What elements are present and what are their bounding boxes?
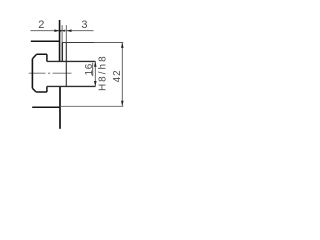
svg-text:42: 42 [112,69,123,82]
svg-text:16: 16 [84,63,95,76]
svg-text:H8/h8: H8/h8 [98,54,109,91]
svg-text:3: 3 [81,19,87,31]
svg-text:2: 2 [38,19,44,31]
